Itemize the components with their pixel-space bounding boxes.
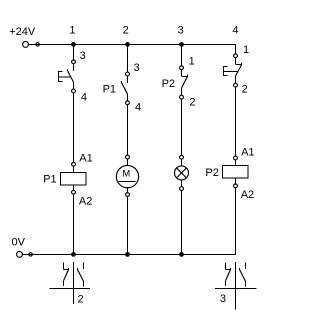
coil P2 terminal A1 circle	[234, 156, 238, 160]
wire column 2 contact P1 to motor	[127, 105, 129, 156]
node 0V connector circle	[29, 253, 32, 256]
contact table P2 mini NC verticals	[226, 262, 231, 286]
svg-text:1: 1	[243, 44, 249, 56]
switch E2 NC foot	[236, 62, 242, 65]
wire motor upper stub	[127, 159, 129, 166]
contact P2 terminal 2 circle	[180, 95, 184, 99]
contact table P1 mini NC verticals	[64, 262, 69, 286]
contact P1 terminal 4 circle	[126, 101, 130, 105]
switch E2 terminal 1 circle	[234, 54, 238, 58]
switch E1 terminal 3 circle	[72, 60, 76, 64]
svg-text:3: 3	[178, 24, 184, 36]
svg-text:4: 4	[135, 101, 141, 113]
svg-text:1: 1	[69, 24, 75, 36]
wire column 2 from top rail to contact P1	[127, 45, 129, 73]
coil P1 terminal A2 circle	[72, 190, 76, 194]
wire column 1 coil P1 to bottom rail	[73, 194, 75, 254]
svg-text:+24V: +24V	[9, 26, 36, 38]
wire column 4 from top rail corner to E2	[235, 44, 237, 54]
contact table P2 vertical	[235, 262, 237, 310]
motor M1 terminal top circle	[126, 155, 130, 159]
switch E1 terminal 4 circle	[72, 89, 76, 93]
wire lamp lower stub	[181, 180, 183, 187]
coil P2 box	[223, 166, 248, 178]
svg-text:M: M	[122, 169, 130, 179]
contact P1 terminal 3 circle	[126, 72, 130, 76]
wire A1 stub P2	[235, 160, 237, 166]
coil P1 box	[61, 173, 86, 185]
contact table P1 horizontal	[49, 288, 90, 290]
svg-text:2: 2	[242, 83, 248, 95]
svg-text:P1: P1	[103, 83, 116, 95]
wire lamp upper stub	[181, 159, 183, 166]
svg-text:3: 3	[80, 50, 86, 62]
switch E1 actuator E glyph	[58, 72, 71, 82]
junction column 2 top	[125, 42, 130, 47]
switch E2 actuator E glyph	[223, 66, 238, 76]
wire column 4 coil P2 to bottom rail	[235, 188, 237, 255]
wire column 1 from top rail to E1	[73, 45, 75, 60]
wire P1 upper terminal stub	[127, 76, 129, 83]
switch E2 blade	[236, 65, 242, 76]
svg-text:P1: P1	[43, 173, 56, 185]
wire E2 lower stub	[235, 76, 237, 83]
wire column 4 E2 to coil P2	[235, 87, 237, 156]
contact table P1 vertical	[73, 262, 75, 304]
coil P2 terminal A2 circle	[234, 184, 238, 188]
wire A2 stub	[73, 185, 75, 190]
wire bottom rail 0V	[23, 254, 236, 256]
svg-text:2: 2	[78, 293, 84, 305]
node +24V terminal circle	[23, 41, 29, 47]
junction column 2 bottom	[125, 252, 130, 257]
wire P1 lower stub	[127, 94, 129, 101]
contact P2 terminal 1 circle	[180, 66, 184, 70]
node +24V connector circle	[36, 43, 39, 46]
svg-text:2: 2	[123, 24, 129, 36]
svg-text:A1: A1	[79, 153, 92, 165]
wire column 3 from top rail to contact P2	[181, 45, 183, 66]
svg-text:A2: A2	[241, 189, 254, 201]
wire E2 upper terminal stub	[235, 58, 237, 64]
svg-text:P2: P2	[205, 167, 218, 179]
contact table P1 mini NO blade	[78, 270, 84, 282]
wire P2 lower stub	[181, 88, 183, 95]
wire motor lower stub	[127, 188, 129, 193]
svg-text:P2: P2	[162, 78, 175, 90]
wire P2 upper terminal stub	[181, 70, 183, 76]
contact table P1 mini NO verticals	[78, 262, 84, 286]
contact table P2 horizontal	[215, 288, 257, 290]
contact table P2 mini NO verticals	[240, 262, 246, 286]
contact P2 blade	[182, 77, 188, 89]
wire E1 lower stub	[73, 82, 75, 89]
wire top rail +24V	[29, 44, 236, 46]
contact P2 NC foot	[182, 74, 188, 77]
contact table P1 mini NC blade	[64, 270, 69, 281]
junction column 3 top	[179, 42, 184, 47]
wire column 3 contact P2 to lamp	[181, 99, 183, 155]
svg-text:4: 4	[81, 91, 87, 103]
svg-text:3: 3	[220, 293, 226, 305]
wire column 3 lamp to bottom rail	[181, 191, 183, 255]
node 0V terminal circle	[17, 251, 23, 257]
svg-text:1: 1	[189, 56, 195, 68]
lamp H1 cross	[177, 168, 187, 178]
switch E2 terminal 2 circle	[234, 83, 238, 87]
junction column 1 bottom	[71, 252, 76, 257]
wire A2 stub P2	[235, 178, 237, 184]
wire column 2 motor to bottom rail	[127, 197, 129, 255]
contact P1 blade	[121, 81, 127, 94]
svg-text:3: 3	[134, 62, 140, 74]
lamp H1 body circle	[175, 166, 189, 180]
motor M1 terminal bottom circle	[126, 193, 130, 197]
lamp H1 terminal top circle	[180, 155, 184, 159]
lamp H1 terminal bottom circle	[180, 187, 184, 191]
svg-text:0V: 0V	[12, 236, 26, 248]
wire E1 upper terminal stub	[73, 64, 75, 71]
coil P1 terminal A1 circle	[72, 162, 76, 166]
svg-text:2: 2	[189, 97, 195, 109]
wire column 1 E1 to coil P1	[73, 93, 75, 162]
svg-text:A1: A1	[241, 146, 254, 158]
contact table P2 mini NC blade	[226, 270, 231, 281]
motor M1 body circle	[116, 165, 138, 187]
motor M underline	[119, 181, 136, 183]
switch E1 blade	[67, 69, 73, 82]
svg-text:4: 4	[232, 24, 238, 36]
contact table P2 mini NO blade	[240, 270, 246, 282]
junction column 3 bottom	[179, 252, 184, 257]
wire A1 stub	[73, 166, 75, 172]
junction column 1 top	[71, 42, 76, 47]
svg-text:A2: A2	[79, 196, 92, 208]
